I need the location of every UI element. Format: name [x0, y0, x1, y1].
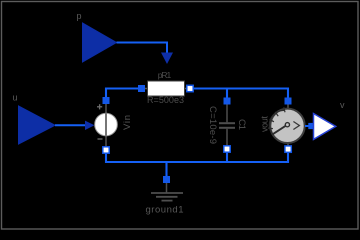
wire bottom bus Vin.n to vout.n — [106, 149, 288, 162]
pin vout.p — [285, 98, 292, 105]
wire u to Vin.v — [55, 121, 95, 130]
svg-text:ground1: ground1 — [146, 205, 184, 216]
pin Vin.p — [103, 97, 110, 104]
svg-text:u: u — [12, 93, 17, 103]
pin C1.n — [224, 146, 230, 152]
wire pR1.n to vout.p (top bus right) — [190, 89, 288, 101]
voltage sensor vout — [260, 104, 305, 146]
input connector u — [12, 93, 55, 145]
svg-text:pR1: pR1 — [158, 70, 172, 80]
pin ground1.p — [163, 176, 170, 183]
ground ground1 — [146, 183, 184, 216]
pin pR1.p — [138, 85, 145, 92]
pin C1.p — [224, 98, 231, 105]
pin vout.n — [285, 146, 291, 152]
svg-text:C=10e-9: C=10e-9 — [207, 106, 218, 144]
wire Vin.p to pR1.p (top bus left) — [106, 89, 141, 101]
svg-text:C1: C1 — [236, 119, 247, 130]
svg-text:R=500e3: R=500e3 — [147, 95, 184, 105]
input connector p — [76, 11, 116, 62]
svg-text:Vin: Vin — [122, 115, 133, 130]
output connector v — [314, 100, 346, 139]
wire C1.n to bottom bus — [226, 149, 228, 162]
wire p to pR1.R — [117, 43, 174, 65]
wire ground1.p stub — [165, 162, 167, 178]
voltage source Vin — [95, 104, 133, 148]
svg-text:vout: vout — [260, 116, 270, 132]
pin Vin.n — [103, 147, 109, 153]
svg-text:v: v — [340, 100, 345, 110]
pin pR1.n — [187, 85, 193, 91]
wire vout.v to v — [305, 123, 314, 129]
svg-text:p: p — [76, 11, 81, 21]
wire junction to C1.p — [226, 89, 228, 100]
resistor pR1 — [144, 70, 188, 105]
capacitor C1 — [207, 104, 247, 146]
